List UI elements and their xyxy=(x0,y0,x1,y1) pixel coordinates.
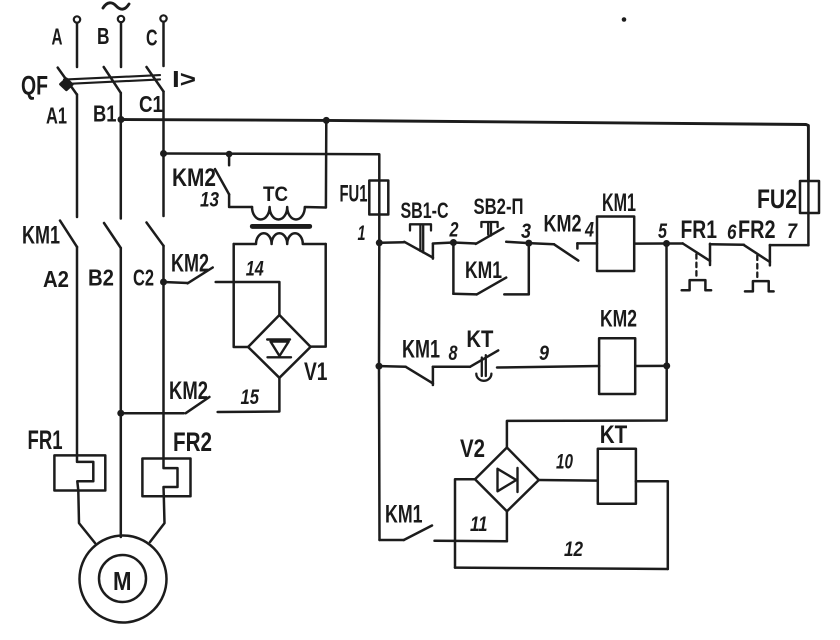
svg-text:B2: B2 xyxy=(88,265,114,291)
terminal A xyxy=(74,16,80,22)
motor M inner circle xyxy=(99,555,146,602)
svg-text:12: 12 xyxy=(564,538,583,561)
node 3 dot xyxy=(525,240,532,247)
svg-text:KM1: KM1 xyxy=(385,501,423,529)
wire TC secondary right to bridge V1 xyxy=(311,244,326,347)
wire V2 right to KT coil xyxy=(539,479,598,482)
transformer TC secondary winding xyxy=(234,233,326,244)
svg-text:FR1: FR1 xyxy=(28,425,63,455)
wire node1 to SB1 xyxy=(379,241,404,244)
wire node2 down to latch xyxy=(452,243,455,294)
wire top rail B1 to junction xyxy=(121,118,326,122)
svg-text:KM1: KM1 xyxy=(22,222,60,250)
wire transformer primary feed from top rail xyxy=(325,120,328,207)
wire KM1 latch right to node3 xyxy=(504,243,529,294)
svg-text:I>: I> xyxy=(172,66,196,92)
wire FR1 to FR2 xyxy=(710,243,744,246)
contact KM2.13 blade xyxy=(215,169,229,194)
wire FU1 to node 1 xyxy=(378,181,381,243)
wire V2 left to bottom rail xyxy=(455,479,475,567)
contact KM1 pole A blade xyxy=(60,221,77,247)
wire KM1 coil to node 5 xyxy=(634,242,666,245)
wire FR2 to FU2 xyxy=(770,244,809,247)
terminal B xyxy=(118,16,124,22)
contact KM2.13 fixed terminal xyxy=(228,154,231,165)
wire KM1 latch left xyxy=(453,293,476,296)
node 5 dot xyxy=(663,240,670,247)
contact KM1.11 blade xyxy=(404,526,432,541)
node 2 dot xyxy=(450,239,457,246)
svg-text:C: C xyxy=(146,25,158,51)
svg-text:B: B xyxy=(97,23,110,49)
wire node2 to SB2 xyxy=(453,243,475,244)
timer coil KT xyxy=(598,449,636,504)
wire KM2 coil to junction xyxy=(635,365,667,368)
svg-text:V1: V1 xyxy=(304,358,328,386)
wire phase A KM1 to FR1 xyxy=(76,247,79,456)
svg-text:14: 14 xyxy=(246,258,264,281)
thermal relay FR1 heater element xyxy=(77,455,93,490)
svg-text:13: 13 xyxy=(200,189,219,212)
button SB2-P plunger xyxy=(481,222,497,236)
node B1 junction xyxy=(118,116,125,123)
svg-text:7: 7 xyxy=(787,220,798,243)
contact FR1 blade xyxy=(683,244,710,261)
wire TC secondary left to bridge V1 xyxy=(234,244,248,347)
wire FR2 to motor xyxy=(150,496,165,542)
svg-text:KM1: KM1 xyxy=(602,189,636,217)
breaker QF pole B blade xyxy=(104,67,121,93)
wire phase A QF to KM1 xyxy=(76,94,79,217)
terminal C xyxy=(160,15,166,21)
svg-text:FR2: FR2 xyxy=(738,216,776,244)
node junction to KM2 contact 13 xyxy=(226,151,233,158)
svg-text:QF: QF xyxy=(21,71,48,101)
contact FR2 release symbol xyxy=(745,281,774,291)
svg-text:5: 5 xyxy=(658,220,667,243)
node C1 junction xyxy=(160,150,167,157)
svg-text:2: 2 xyxy=(449,219,459,242)
svg-text:6: 6 xyxy=(727,221,737,244)
wire SB2 to node 3 xyxy=(506,242,529,243)
contact KT blade xyxy=(470,350,498,366)
svg-text:KM2: KM2 xyxy=(544,211,582,238)
svg-text:KT: KT xyxy=(466,326,493,353)
wire FR1 to motor xyxy=(78,491,95,544)
wire FU1 column rung 8 to KM1.11 xyxy=(378,366,381,540)
fuse FU2 body xyxy=(800,181,819,213)
svg-text:SB1-C: SB1-C xyxy=(401,198,449,223)
ink speck xyxy=(622,17,627,22)
wire phase C QF to KM1 xyxy=(162,92,165,217)
contact KM1 latch blade xyxy=(477,278,507,295)
contact KT delay cup xyxy=(476,374,491,381)
svg-text:B1: B1 xyxy=(93,101,117,127)
wire SB1 to node 2 xyxy=(433,243,454,244)
wire KT contact to KM2 coil xyxy=(497,366,599,368)
rectifier bridge V2 xyxy=(475,448,539,512)
svg-text:V2: V2 xyxy=(460,435,485,463)
svg-text:10: 10 xyxy=(556,451,573,474)
svg-text:M: M xyxy=(113,566,132,596)
contact KM2.15 blade xyxy=(186,397,210,413)
wire node5 to FR1 xyxy=(667,242,683,245)
button SB1-C plunger xyxy=(410,224,431,252)
wire C2 to KM2.14 xyxy=(164,282,188,283)
wire to KM1 coil xyxy=(577,242,597,245)
contact FR2 blade xyxy=(744,245,770,262)
wire KM2.15 to bridge V1 minus xyxy=(218,378,280,412)
node KM2 right junction xyxy=(663,362,670,369)
fuse FU1 body xyxy=(369,181,388,215)
thermal relay FR2 heater element xyxy=(164,459,178,497)
svg-text:FU1: FU1 xyxy=(340,181,368,208)
contact FR1 terminal xyxy=(709,244,712,265)
node B2 junction xyxy=(117,410,124,417)
svg-text:TC: TC xyxy=(263,183,288,206)
contact KM1 pole B blade xyxy=(104,223,121,248)
wire C1 rail to FU1 corner xyxy=(164,154,380,181)
wire junction to KM1.8 xyxy=(379,365,406,368)
svg-text:15: 15 xyxy=(241,386,260,409)
svg-text:11: 11 xyxy=(470,513,488,536)
wire KM1.11 to V2 bottom xyxy=(435,540,507,543)
wire KM1.8 to KT contact xyxy=(433,366,470,369)
svg-text:9: 9 xyxy=(539,342,549,365)
svg-text:FR2: FR2 xyxy=(173,427,212,457)
wire up to FU2 xyxy=(807,181,810,245)
wire FU1 column to KM1.11 xyxy=(380,539,404,542)
svg-text:SB2-П: SB2-П xyxy=(474,194,524,219)
svg-text:KT: KT xyxy=(600,421,628,449)
svg-text:KM2: KM2 xyxy=(600,306,637,333)
wire node3 to KM2 interlock xyxy=(529,243,554,244)
node top rail junction xyxy=(323,117,330,124)
breaker QF pole A blade xyxy=(58,68,77,95)
thermal relay FR2 heater box xyxy=(142,459,190,497)
contact KM2 interlock blade xyxy=(554,244,578,260)
svg-text:3: 3 xyxy=(521,220,531,243)
rectifier bridge V1 xyxy=(248,315,311,378)
wire B2 to KM2.15 xyxy=(121,412,184,415)
rectifier V1 diode symbol xyxy=(267,340,291,358)
breaker QF actuator diamond xyxy=(60,79,72,90)
wire junction down and left to V2 xyxy=(507,366,667,448)
contact KM1.8 terminal xyxy=(432,367,435,385)
wire top rail junction to FU2 corner xyxy=(326,120,808,181)
contactor coil KM1 xyxy=(597,217,634,272)
thermal relay FR1 heater box xyxy=(54,455,105,490)
contact FR1 release symbol xyxy=(682,280,711,290)
contact FR1 release dashed link xyxy=(695,254,697,278)
wire FU1 column node1 to rung 8 xyxy=(378,243,381,366)
transformer TC core xyxy=(252,224,309,229)
AC supply tilde symbol xyxy=(103,3,129,9)
svg-text:KM1: KM1 xyxy=(402,336,440,364)
svg-text:A2: A2 xyxy=(43,266,69,292)
node 1 dot xyxy=(376,239,383,246)
svg-text:A1: A1 xyxy=(46,102,67,128)
wire bottom rail xyxy=(455,568,668,569)
contact FR2 terminal xyxy=(769,245,772,265)
wire phase C terminal to QF xyxy=(162,22,165,66)
contact KM2.14 blade xyxy=(188,268,213,284)
wire phase B QF to KM1 xyxy=(120,93,123,219)
svg-text:1: 1 xyxy=(358,222,366,245)
contact KM2 interlock terminal xyxy=(576,243,579,248)
breaker QF trip bar xyxy=(64,75,160,84)
node C2 junction xyxy=(160,279,167,286)
contact FR2 release dashed link xyxy=(756,256,758,279)
svg-text:FR1: FR1 xyxy=(681,216,718,244)
svg-text:A: A xyxy=(52,24,63,50)
wire phase B terminal to QF xyxy=(120,22,123,67)
wire KM2.14 to bridge V1 plus xyxy=(216,282,280,315)
button SB1-C blade xyxy=(404,242,433,258)
svg-text:FU2: FU2 xyxy=(757,184,797,214)
contact KM1.8 blade xyxy=(406,367,433,384)
svg-text:4: 4 xyxy=(584,219,594,242)
contact KT delay stem xyxy=(482,355,486,376)
motor M outer circle xyxy=(80,536,167,623)
svg-text:C1: C1 xyxy=(139,91,163,117)
contactor coil KM2 xyxy=(599,338,635,394)
wire V2 bottom corner down xyxy=(506,511,509,541)
button SB1-C fixed terminal xyxy=(432,244,435,259)
svg-text:KM1: KM1 xyxy=(465,257,502,284)
rectifier V2 diode symbol xyxy=(498,468,518,492)
wire node5 down to junction xyxy=(665,244,668,366)
contact KM1 pole C blade xyxy=(147,223,164,246)
wire phase A terminal to QF xyxy=(76,23,79,67)
svg-text:8: 8 xyxy=(449,342,458,365)
wire phase B KM1 to motor xyxy=(120,248,123,537)
svg-text:C2: C2 xyxy=(133,265,154,291)
node 8 junction dot xyxy=(376,363,383,370)
transformer TC primary winding xyxy=(252,207,326,220)
breaker QF pole C blade xyxy=(147,67,164,92)
button SB2-P blade xyxy=(476,228,504,244)
wire KT coil right down xyxy=(636,481,668,569)
wire KM2.13 to TC primary xyxy=(229,194,252,207)
wire phase C KM1 to FR2 xyxy=(162,246,165,459)
